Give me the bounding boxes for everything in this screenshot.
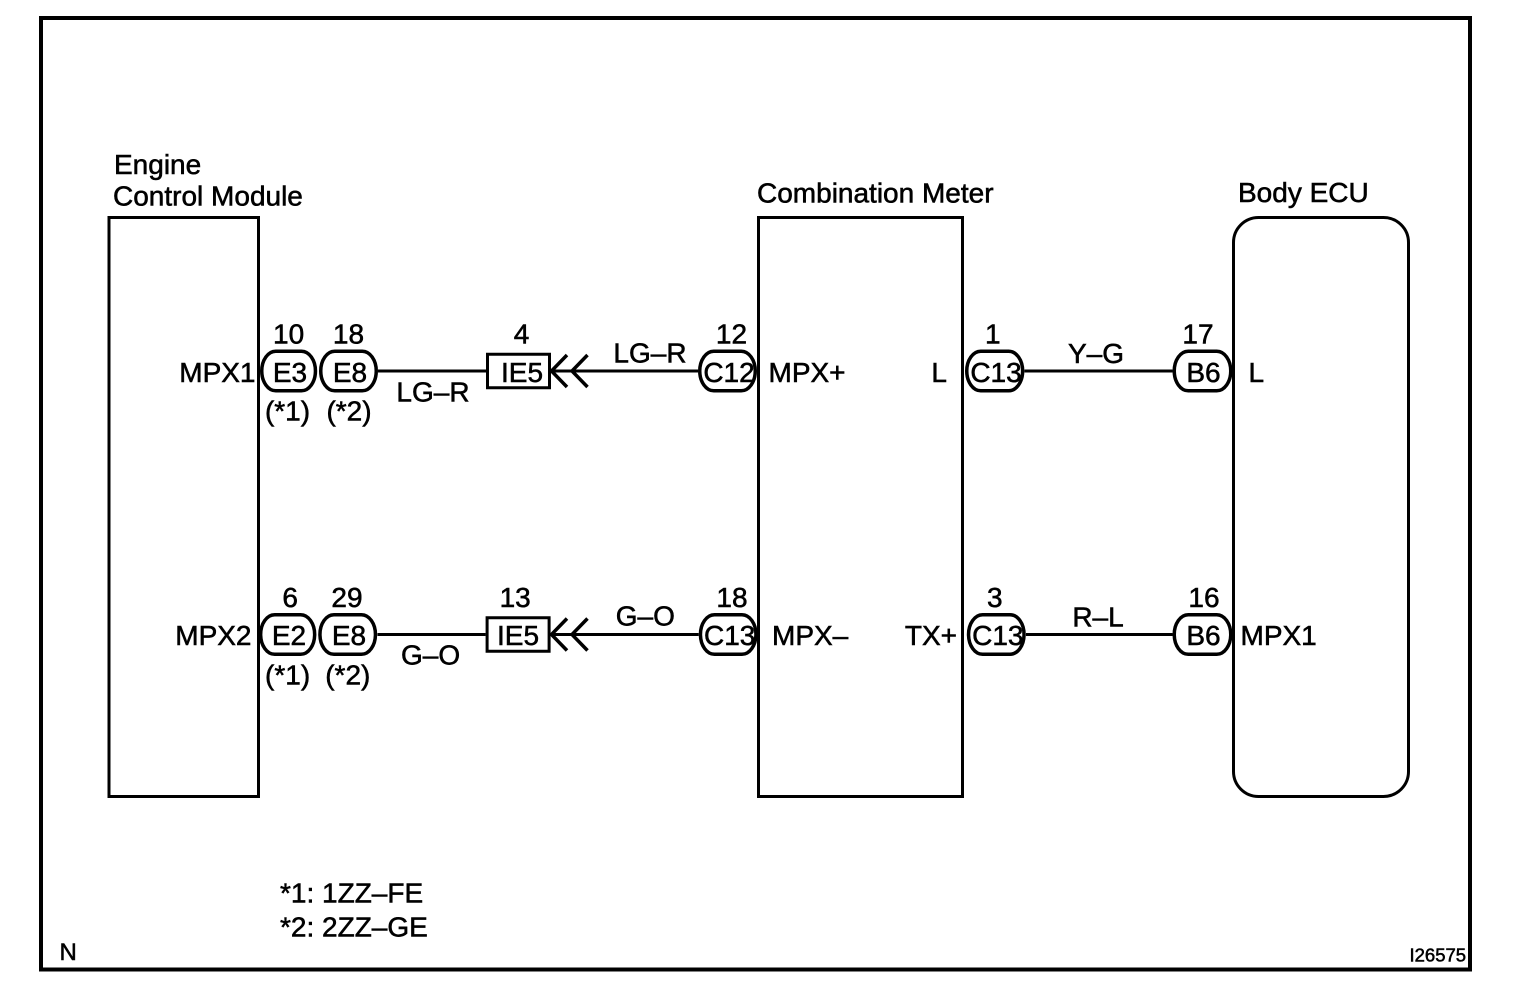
wire C13 to B6 row 2 [1026, 633, 1173, 636]
junction IE5 row 2 [487, 618, 549, 652]
svg-text:3: 3 [987, 582, 1003, 613]
svg-text:(*1): (*1) [265, 660, 310, 691]
svg-text:B6: B6 [1186, 357, 1220, 388]
svg-text:(*2): (*2) [326, 396, 371, 427]
svg-text:E3: E3 [273, 357, 307, 388]
svg-text:E2: E2 [272, 620, 306, 651]
svg-text:18: 18 [716, 582, 747, 613]
svg-text:29: 29 [331, 582, 362, 613]
svg-text:C13: C13 [972, 620, 1023, 651]
block Engine Control Module [109, 218, 259, 797]
svg-text:18: 18 [333, 319, 364, 350]
wire E8 to IE5 row 2 [378, 633, 486, 636]
svg-text:4: 4 [514, 319, 530, 350]
block Body ECU [1234, 218, 1409, 797]
svg-text:Combination Meter: Combination Meter [757, 178, 994, 209]
svg-text:LG–R: LG–R [613, 338, 686, 369]
svg-text:G–O: G–O [616, 601, 675, 632]
svg-text:(*2): (*2) [325, 660, 370, 691]
svg-text:13: 13 [500, 582, 531, 613]
arrow chevrons row 1 [552, 355, 588, 387]
svg-text:TX+: TX+ [905, 620, 957, 651]
junction IE5 row 1 [488, 354, 550, 388]
block Combination Meter [759, 218, 963, 797]
svg-text:MPX1: MPX1 [1241, 620, 1317, 651]
svg-text:MPX–: MPX– [772, 620, 849, 651]
svg-text:17: 17 [1182, 319, 1213, 350]
svg-text:*2: 2ZZ–GE: *2: 2ZZ–GE [280, 912, 428, 943]
connector C13 row 1 [967, 351, 1023, 391]
connector B6 row 2 [1174, 615, 1231, 655]
wire IE5 to C12 row 1 [552, 370, 699, 373]
connector E8 row 1 [321, 351, 377, 391]
svg-text:I26575: I26575 [1410, 945, 1467, 966]
connector B6 row 1 [1174, 351, 1231, 391]
connector C13 right row 2 [969, 615, 1025, 655]
svg-text:C13: C13 [970, 357, 1021, 388]
svg-text:10: 10 [273, 319, 304, 350]
svg-text:E8: E8 [333, 357, 367, 388]
svg-text:*1: 1ZZ–FE: *1: 1ZZ–FE [280, 878, 423, 909]
svg-text:L: L [931, 357, 947, 388]
svg-text:E8: E8 [332, 620, 366, 651]
connector E3 [262, 351, 316, 391]
svg-text:C13: C13 [704, 620, 755, 651]
svg-text:R–L: R–L [1072, 602, 1123, 633]
svg-text:MPX2: MPX2 [175, 620, 251, 651]
connector E2 [261, 615, 315, 655]
wire IE5 to C13 row 2 [552, 633, 699, 636]
svg-text:MPX+: MPX+ [769, 357, 846, 388]
wire C13 to B6 row 1 [1025, 370, 1173, 373]
svg-text:MPX1: MPX1 [179, 357, 255, 388]
connector E8 row 2 [320, 615, 376, 655]
connector C13 left row 2 [700, 615, 756, 655]
svg-text:C12: C12 [703, 357, 754, 388]
svg-text:LG–R: LG–R [396, 377, 469, 408]
svg-text:(*1): (*1) [265, 396, 310, 427]
wire E8 to IE5 row 1 [378, 370, 486, 373]
svg-text:B6: B6 [1186, 620, 1220, 651]
svg-text:IE5: IE5 [497, 620, 539, 651]
svg-text:12: 12 [716, 319, 747, 350]
svg-text:L: L [1249, 357, 1265, 388]
svg-text:N: N [60, 939, 77, 966]
svg-text:IE5: IE5 [501, 357, 543, 388]
svg-text:1: 1 [985, 319, 1001, 350]
connector C12 [700, 351, 756, 391]
svg-text:G–O: G–O [401, 640, 460, 671]
arrow chevrons row 2 [552, 619, 588, 651]
svg-text:Control Module: Control Module [113, 181, 303, 212]
svg-text:6: 6 [282, 582, 298, 613]
svg-text:Y–G: Y–G [1068, 338, 1124, 369]
svg-text:Body ECU: Body ECU [1238, 177, 1369, 208]
svg-text:Engine: Engine [114, 149, 201, 180]
svg-text:16: 16 [1188, 582, 1219, 613]
